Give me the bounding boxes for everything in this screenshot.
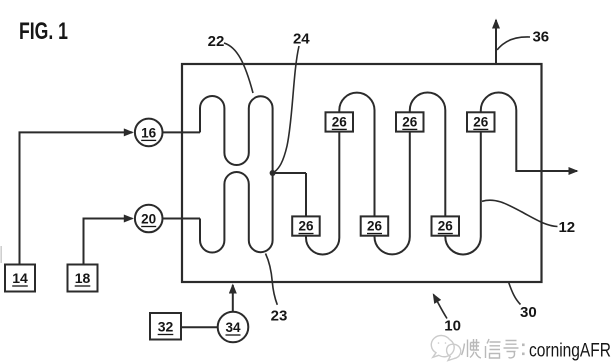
wire from box 18 to circle 20 with arrow — [84, 219, 133, 265]
svg-text:26: 26 — [402, 114, 418, 129]
svg-text:18: 18 — [75, 270, 91, 286]
leader 23 — [266, 254, 278, 305]
box 32 — [150, 313, 181, 340]
heater box 26 bottom 2 — [361, 216, 389, 235]
watermark colon — [522, 344, 525, 356]
wire 32 to 34 — [181, 326, 218, 328]
circle 16 — [135, 119, 163, 147]
junction node 24 — [270, 170, 276, 176]
heater box 26 top 2 — [396, 112, 424, 131]
svg-text:20: 20 — [141, 212, 156, 227]
watermark wechat icon — [431, 336, 460, 361]
svg-text:16: 16 — [141, 125, 157, 140]
circle 34 — [218, 312, 249, 343]
wire from box 14 to circle 16 with arrow — [20, 132, 133, 264]
vent arrow 36 — [495, 20, 497, 64]
heater box 26 top 1 — [326, 112, 354, 131]
svg-text:36: 36 — [532, 29, 549, 46]
edge artifact — [0, 246, 2, 263]
wire from circle 20 into reactor — [163, 218, 201, 220]
svg-text:FIG. 1: FIG. 1 — [19, 18, 68, 45]
box 14 — [5, 265, 35, 292]
wire junction to main serpentine — [273, 172, 306, 174]
svg-text:26: 26 — [473, 114, 489, 129]
arrow 10 pointing at reactor — [434, 295, 448, 319]
circle 20 — [135, 205, 163, 233]
svg-text:12: 12 — [558, 219, 575, 236]
svg-text:14: 14 — [12, 270, 28, 286]
mixer channel 22 upper serpentine — [200, 96, 273, 173]
box 18 — [68, 265, 98, 292]
svg-text:34: 34 — [225, 320, 241, 335]
leader 24 — [275, 46, 299, 172]
svg-text:22: 22 — [208, 33, 225, 50]
svg-text:30: 30 — [520, 304, 537, 321]
svg-text:10: 10 — [444, 318, 461, 335]
svg-text:26: 26 — [438, 219, 454, 234]
leader 36 — [497, 37, 530, 50]
arrow from 34 into reactor — [232, 285, 234, 312]
svg-text:corningAFR: corningAFR — [529, 341, 611, 362]
wire from circle 16 into reactor — [163, 131, 201, 133]
leader 30 — [509, 283, 521, 305]
watermark text wei xin hao glyphs — [462, 339, 519, 358]
main reactor serpentine channel 12 — [306, 92, 577, 254]
heater box 26 bottom 1 — [292, 216, 320, 235]
svg-text:23: 23 — [271, 308, 288, 325]
reactor body outline (box 10/12) — [182, 64, 542, 282]
svg-text:26: 26 — [367, 219, 383, 234]
svg-text:24: 24 — [293, 31, 310, 48]
mixer channel lower serpentine 23 — [200, 172, 273, 253]
leader 12 — [482, 200, 558, 226]
svg-text:26: 26 — [332, 114, 348, 129]
heater box 26 bottom 3 — [432, 216, 460, 235]
svg-text:32: 32 — [158, 319, 174, 335]
svg-text:26: 26 — [298, 219, 314, 234]
leader 22 — [224, 43, 253, 93]
heater box 26 top 3 — [467, 112, 495, 131]
